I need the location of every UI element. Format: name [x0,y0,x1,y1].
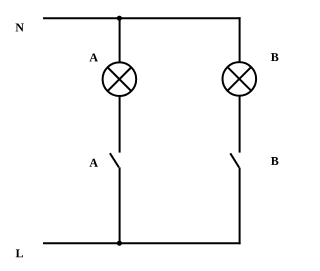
wire N rail (top horizontal) [43,17,241,19]
node junction bottom (left branch tap on L rail) [117,241,122,246]
label A (switch A) [89,159,97,167]
switch B (open blade) [230,153,239,167]
wire right branch: rail corner to lamp B [239,17,241,62]
label B (lamp B) [271,53,278,61]
lamp B (circle with X) [223,62,257,96]
label L [16,249,23,257]
wire left branch: rail to lamp A [119,18,121,62]
label A (lamp A) [89,53,97,61]
switch A (open blade) [110,153,119,167]
wire right branch: lamp B to switch B [239,96,241,153]
label B (switch B) [271,157,278,165]
wire left branch: switch A to L rail [119,167,121,243]
lamp A (circle with X) [103,62,137,96]
label N [16,24,24,32]
wire L rail (bottom horizontal) [43,242,241,244]
wire left branch: lamp A to switch A [119,96,121,153]
node junction top (left branch tap on N rail) [117,16,122,21]
wire right branch: switch B to L rail [239,168,241,245]
